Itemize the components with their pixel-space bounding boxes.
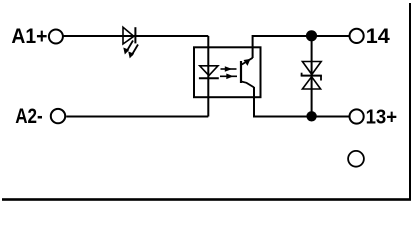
terminal 14 (350, 29, 364, 43)
junction node 13 (306, 111, 316, 121)
suppressor diode (bidirectional TVS) (301, 36, 322, 116)
right border line (409, 3, 411, 200)
wire optocoupler input to A2- (bottom) (66, 116, 208, 118)
bottom border bar (2, 198, 411, 201)
optocoupler light arrows (220, 66, 237, 79)
junction node 14 (306, 30, 317, 41)
optocoupler LED (199, 66, 219, 78)
svg-text:A1+: A1+ (11, 25, 47, 48)
terminal A1+ (49, 30, 63, 44)
svg-text:13+: 13+ (366, 105, 398, 128)
wire emitter to node 13 (254, 87, 349, 117)
phototransistor (241, 58, 254, 88)
wire input vertical (anode lead down through opto LED) (207, 36, 209, 117)
svg-text:A2-: A2- (15, 105, 43, 128)
wire A1+ to optocoupler input (top) (63, 35, 208, 37)
optocoupler box (194, 47, 261, 97)
wire collector to node 14 (253, 36, 349, 58)
unused terminal (348, 151, 364, 167)
LED indicator (123, 27, 138, 58)
terminal A2- (51, 109, 65, 123)
svg-text:14: 14 (366, 25, 390, 48)
terminal 13+ (350, 109, 364, 123)
